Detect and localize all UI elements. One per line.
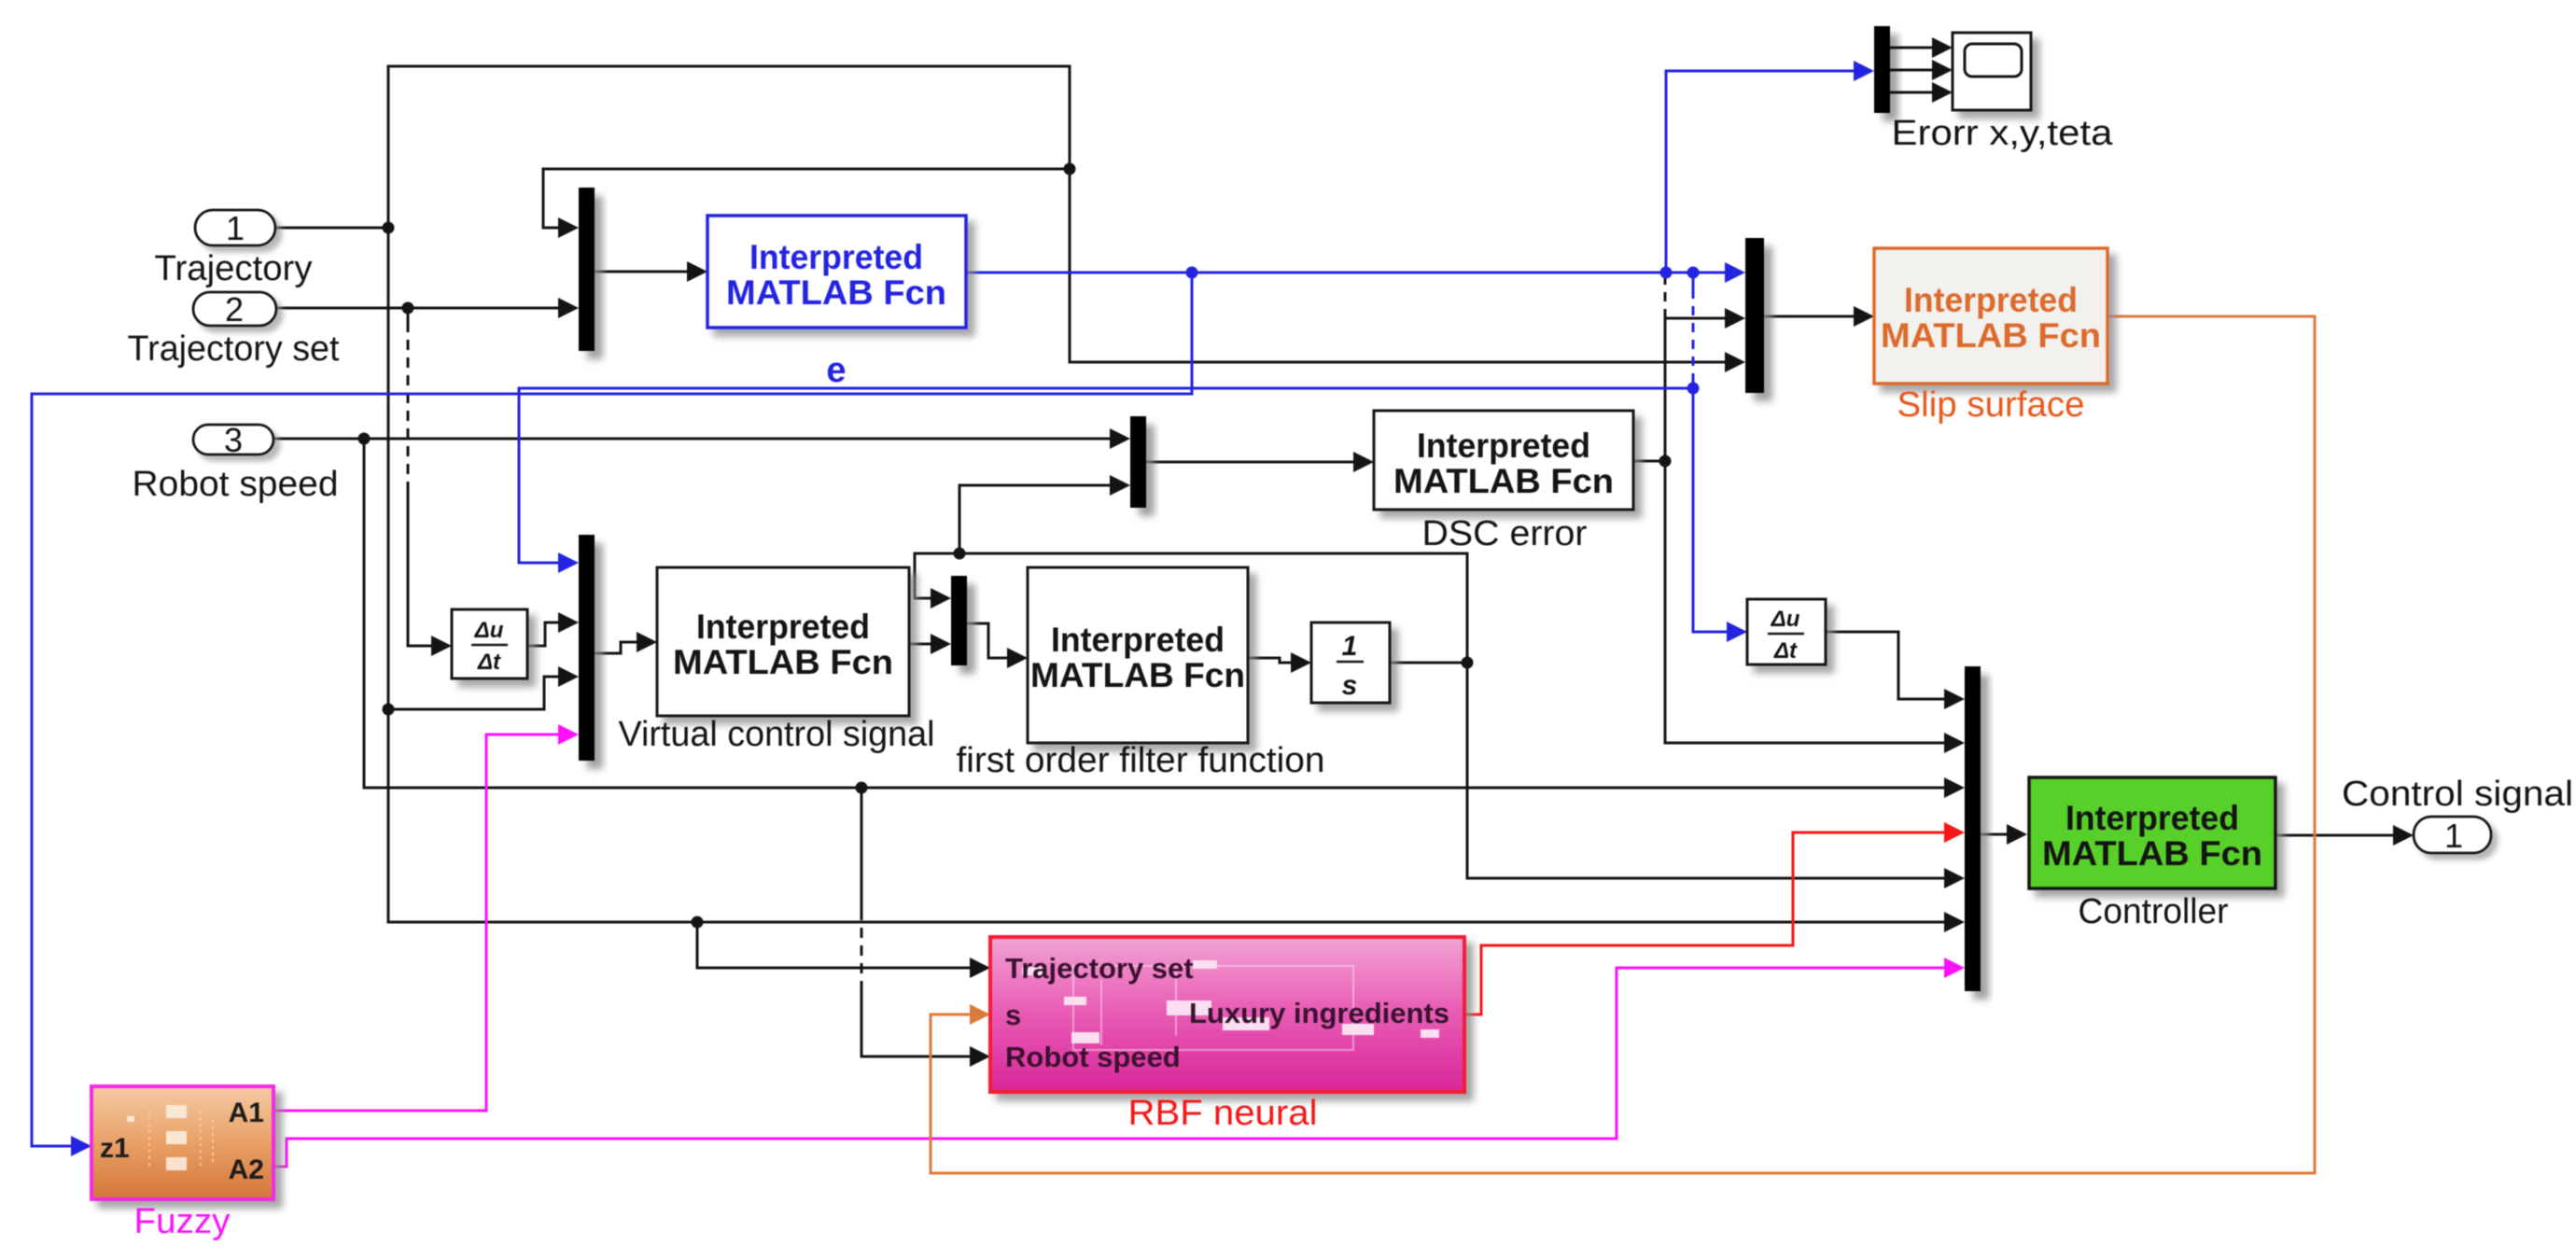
- wire blue y416 to mux2 input1: [519, 388, 1693, 573]
- wire du/dt right output to mux5 in1: [1826, 632, 1965, 709]
- label Trajectory: [155, 249, 313, 288]
- wire 1/s down branch to mux5 in5: [1467, 663, 1965, 888]
- label Virtual control signal: [619, 715, 935, 754]
- node junction (390,470): [358, 433, 371, 445]
- block scope Erorr x,y,teta: [1953, 33, 2031, 110]
- svg-text:first order filter function: first order filter function: [957, 741, 1325, 780]
- node blue junction (1785,292): [1660, 267, 1673, 279]
- block DSC error fcn: [1374, 411, 1633, 510]
- wire from port 2 to mux1 input2: [276, 298, 579, 318]
- wire branch to RBF Robot speed input: [861, 788, 990, 1067]
- svg-text:A2: A2: [229, 1154, 264, 1185]
- svg-text:Luxury ingredients: Luxury ingredients: [1189, 997, 1449, 1029]
- svg-text:Interpreted: Interpreted: [1051, 621, 1225, 659]
- svg-text:MATLAB Fcn: MATLAB Fcn: [1881, 316, 2101, 355]
- port input 1: [195, 209, 275, 247]
- wire port1 vertical down to mux5 in6: [388, 228, 1965, 932]
- wire mux1 input1 from y181 line: [543, 169, 1070, 238]
- wire e output blue to mux4 input1: [966, 262, 1745, 283]
- wire scope demux arrows: [1890, 37, 1953, 103]
- wire port2 vertical down to du/dt left: [408, 308, 452, 656]
- block integrator 1/s: [1311, 623, 1390, 703]
- node junction (923,844): [856, 782, 868, 794]
- label Trajectory set: [128, 329, 340, 369]
- svg-text:Controller: Controller: [2079, 892, 2229, 931]
- wire branch to RBF Trajectory set input: [697, 922, 990, 978]
- svg-text:Virtual control signal: Virtual control signal: [619, 715, 935, 754]
- block Controller fcn: [2029, 777, 2275, 888]
- svg-text:Interpreted: Interpreted: [2065, 799, 2239, 837]
- svg-text:MATLAB Fcn: MATLAB Fcn: [1030, 656, 1245, 694]
- svg-text:Interpreted: Interpreted: [1417, 427, 1590, 465]
- block first order filter fcn: [1028, 567, 1248, 743]
- wire 1/s feedback up to y593 line and mux3 input1: [915, 553, 1467, 663]
- wire branch up to DSC mux input2: [959, 475, 1130, 553]
- node junction (1572,710): [1462, 657, 1474, 669]
- svg-text:Erorr x,y,teta: Erorr x,y,teta: [1892, 114, 2114, 153]
- port output 1: [2414, 817, 2491, 855]
- node junction (747,988): [692, 916, 704, 929]
- block Slip surface fcn: [1874, 248, 2107, 384]
- svg-text:3: 3: [224, 421, 243, 459]
- wire magenta Fuzzy A2 to mux5 in7: [273, 958, 1965, 1167]
- mux M5 slip surface mux: [1745, 238, 1764, 393]
- svg-text:Control signal: Control signal: [2342, 775, 2573, 814]
- port input 2: [193, 290, 276, 329]
- wire Controller output to out port 1: [2275, 825, 2414, 846]
- svg-text:A1: A1: [229, 1098, 264, 1128]
- mux M2 virtual control mux: [579, 535, 595, 761]
- svg-text:s: s: [1005, 999, 1021, 1031]
- svg-text:Robot speed: Robot speed: [133, 465, 339, 504]
- svg-text:Δu: Δu: [474, 618, 504, 643]
- svg-text:Interpreted: Interpreted: [749, 238, 923, 276]
- svg-text:DSC error: DSC error: [1422, 514, 1588, 553]
- svg-text:1: 1: [226, 209, 245, 247]
- label Slip surface: [1897, 385, 2085, 425]
- label Fuzzy: [134, 1202, 231, 1241]
- label RBF neural: [1128, 1094, 1318, 1133]
- mux M1: [579, 188, 595, 351]
- svg-text:Δu: Δu: [1771, 607, 1800, 632]
- svg-text:Interpreted: Interpreted: [696, 608, 870, 646]
- block du/dt right: [1747, 599, 1826, 664]
- label Controller: [2079, 892, 2229, 931]
- node blue junction (1814,292): [1687, 267, 1700, 279]
- svg-text:Δt: Δt: [477, 650, 501, 675]
- svg-text:z1: z1: [100, 1133, 130, 1164]
- wire DSC up branch to mux4 input2: [1665, 278, 1745, 461]
- wire du/dt left output to mux2 input2: [527, 612, 579, 646]
- wire port1 feedback top loop to mux4: [388, 66, 1745, 372]
- wire DSC mux output to DSC error block: [1146, 452, 1374, 472]
- demux scope demux: [1874, 26, 1890, 113]
- wire mux4 output to Slip surface: [1764, 306, 1874, 327]
- wire red RBF output to mux5 in4: [1464, 822, 1965, 1014]
- svg-text:RBF neural: RBF neural: [1128, 1094, 1318, 1133]
- wire filter block output to 1/s: [1248, 652, 1311, 673]
- wire Virtual control output to mux3 input2: [909, 634, 951, 654]
- block e Interpreted MATLAB Fcn: [707, 216, 966, 328]
- svg-text:Robot speed: Robot speed: [1005, 1041, 1181, 1073]
- node junction (1784,494): [1659, 455, 1672, 468]
- block RBF neural subsystem: [990, 937, 1464, 1092]
- label first order filter function: [957, 741, 1325, 780]
- label Robot speed: [133, 465, 339, 504]
- svg-text:Trajectory set: Trajectory set: [1005, 952, 1194, 985]
- label DSC error: [1422, 514, 1588, 553]
- svg-text:Δt: Δt: [1773, 638, 1798, 664]
- wire mux3 output to filter block: [967, 623, 1028, 668]
- wire from port 3 to DSC mux input1: [273, 428, 1130, 449]
- node junction (1028,593): [954, 548, 966, 560]
- wire DSC down branch to mux5 in2: [1665, 461, 1965, 753]
- wire blue scope branch: [1666, 61, 1874, 273]
- node blue junction (1277,292): [1186, 267, 1198, 279]
- block Virtual control signal fcn: [657, 567, 909, 716]
- node blue junction (1814,416): [1687, 383, 1700, 395]
- label Control signal: [2342, 775, 2573, 814]
- wire blue vertical to du/dt right: [1693, 273, 1747, 642]
- wire port3 vertical down to mux5 in3: [364, 439, 1965, 798]
- wire mux5 output to Controller: [1981, 824, 2027, 845]
- wire from port 1: [275, 227, 388, 230]
- block du/dt left: [452, 609, 527, 678]
- mux M4 DSC mux: [1130, 416, 1146, 508]
- wire orange Slip surface output to RBF s input: [931, 316, 2315, 1173]
- wire 1/s output: [1390, 662, 1467, 664]
- label e: [826, 351, 846, 390]
- svg-text:1: 1: [2444, 817, 2463, 855]
- node junction (437,330): [402, 302, 414, 315]
- node junction (1146,181): [1064, 163, 1076, 175]
- label Erorr x,y,teta: [1892, 114, 2114, 153]
- wire branch to mux2 input3: [388, 666, 579, 709]
- port input 3: [193, 421, 273, 459]
- svg-text:Interpreted: Interpreted: [1904, 281, 2078, 319]
- node junction (416,760): [383, 704, 395, 716]
- svg-text:Slip surface: Slip surface: [1897, 385, 2085, 425]
- svg-text:MATLAB Fcn: MATLAB Fcn: [673, 643, 893, 681]
- svg-text:MATLAB Fcn: MATLAB Fcn: [726, 273, 946, 312]
- svg-text:e: e: [826, 351, 846, 390]
- svg-text:Trajectory: Trajectory: [155, 249, 313, 288]
- svg-text:MATLAB Fcn: MATLAB Fcn: [2042, 834, 2262, 873]
- block Fuzzy subsystem: [91, 1086, 273, 1199]
- wire blue e branch down at 1277 to Fuzzy z1: [32, 273, 1192, 1156]
- wire DSC error output: [1633, 460, 1665, 463]
- node junction (416,244): [383, 222, 395, 234]
- svg-text:MATLAB Fcn: MATLAB Fcn: [1393, 462, 1614, 500]
- svg-text:s: s: [1342, 670, 1358, 701]
- svg-text:Fuzzy: Fuzzy: [134, 1202, 231, 1241]
- svg-text:1: 1: [1342, 631, 1358, 662]
- wire mux2 output to Virtual control block: [595, 632, 657, 653]
- svg-text:2: 2: [225, 290, 244, 329]
- mux M3 filter mux: [951, 576, 967, 665]
- wire magenta Fuzzy A1 to mux2 input4: [273, 724, 579, 1111]
- mux M6 controller mux: [1965, 666, 1981, 991]
- wire mux1 output to e block: [595, 261, 707, 282]
- svg-text:Trajectory set: Trajectory set: [128, 329, 340, 369]
